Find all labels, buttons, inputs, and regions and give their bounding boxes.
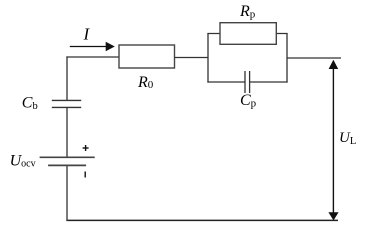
svg-text:R0: R0 <box>137 74 154 91</box>
svg-text:Cb: Cb <box>22 95 38 113</box>
svg-text:I: I <box>83 25 91 44</box>
svg-text:Cp: Cp <box>240 92 257 110</box>
svg-text:Rp: Rp <box>239 3 256 21</box>
svg-text:Uocv: Uocv <box>10 153 36 170</box>
svg-text:UL: UL <box>339 130 356 147</box>
